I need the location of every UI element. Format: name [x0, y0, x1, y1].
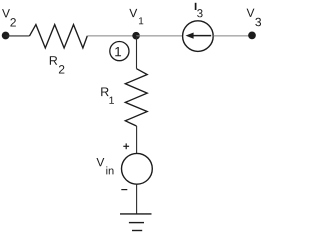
voltage source Vin [121, 153, 152, 184]
resistor R1 [125, 69, 147, 126]
node V3 terminal dot [248, 32, 256, 40]
wire V1 to I3 [136, 35, 182, 37]
current source I3 [183, 21, 214, 52]
Vin plus sign [123, 143, 129, 149]
voltage source Vin label [96, 158, 113, 174]
wire Vin to ground [136, 184, 138, 214]
resistor R2 [30, 25, 88, 48]
ground [120, 214, 152, 231]
wire I3 to V3 [213, 35, 252, 37]
node V1 label [129, 9, 143, 24]
node V2 label [2, 9, 16, 26]
wire R2 to node V1 [87, 35, 136, 37]
wire V2 to R2 [6, 35, 30, 37]
node V1 junction dot [132, 32, 140, 40]
wire V1 down to R1 [136, 36, 138, 69]
node V3 label [247, 9, 261, 27]
Vin minus sign [121, 189, 127, 191]
node 1 marker [110, 42, 129, 61]
current source I3 label [196, 3, 203, 18]
resistor R2 label [50, 56, 65, 73]
resistor R1 label [101, 88, 114, 104]
node V2 terminal dot [2, 32, 10, 40]
wire R1 to Vin [136, 126, 138, 153]
